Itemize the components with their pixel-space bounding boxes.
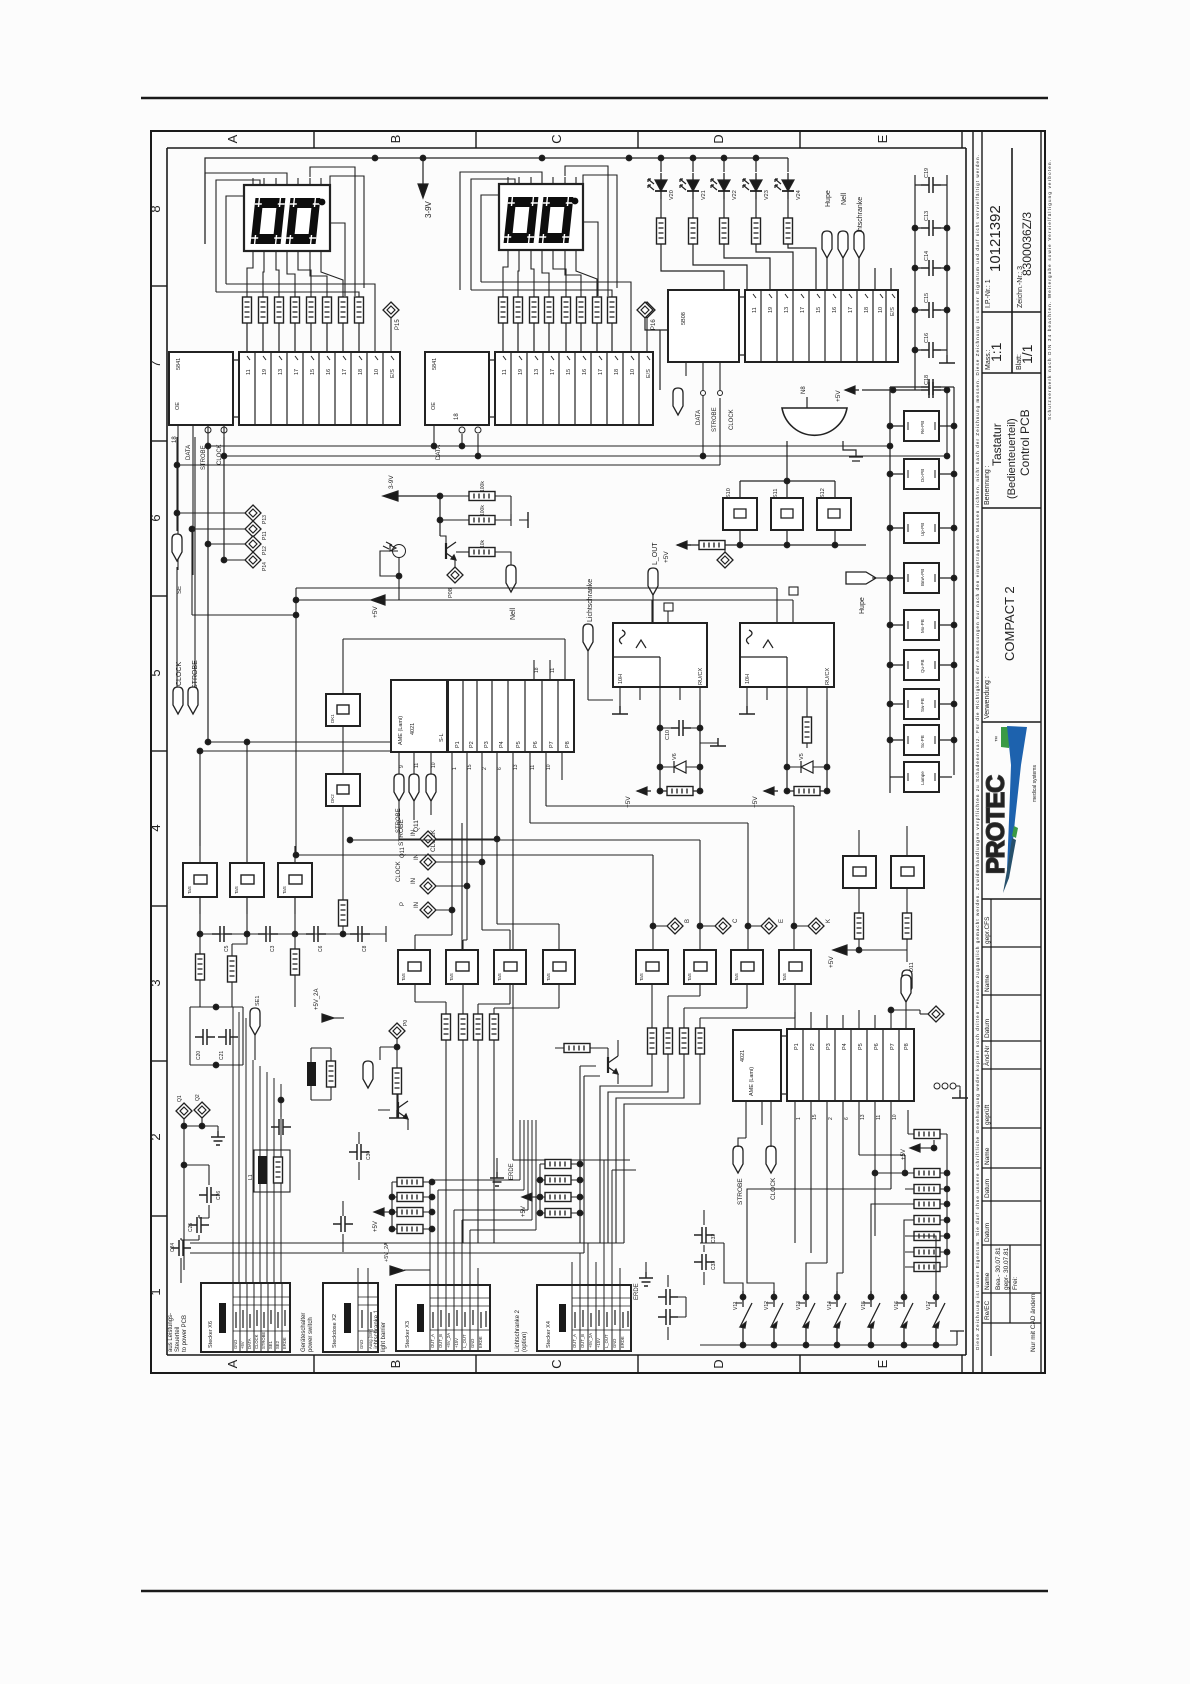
- svg-text:10: 10: [630, 369, 636, 375]
- svg-text:11: 11: [414, 763, 420, 768]
- svg-text:S12: S12: [820, 488, 826, 498]
- svg-text:15: 15: [310, 369, 316, 375]
- svg-text:17: 17: [294, 369, 300, 375]
- svg-text:IN: IN: [414, 902, 420, 908]
- svg-text:C6: C6: [318, 945, 324, 952]
- svg-text:4021: 4021: [410, 723, 416, 735]
- svg-text:OE: OE: [431, 402, 437, 410]
- svg-text:Schutzvermerk nach DIN 34 beac: Schutzvermerk nach DIN 34 beachten. Weit…: [1047, 160, 1052, 420]
- svg-text:P2: P2: [810, 1043, 816, 1050]
- svg-text:16: 16: [832, 307, 838, 313]
- svg-text:P7: P7: [549, 741, 555, 748]
- svg-text:Frei:: Frei:: [1012, 1277, 1019, 1290]
- svg-text:Datum: Datum: [984, 1019, 991, 1038]
- svg-text:V13: V13: [796, 1301, 802, 1310]
- svg-text:STROBE: STROBE: [396, 808, 402, 833]
- svg-text:TaS: TaS: [401, 973, 406, 981]
- svg-text:P16: P16: [651, 319, 657, 330]
- svg-text:C: C: [733, 918, 739, 923]
- svg-text:V24: V24: [796, 190, 802, 200]
- svg-text:C5: C5: [224, 945, 230, 952]
- svg-text:6: 6: [844, 1117, 850, 1120]
- svg-text:17: 17: [550, 369, 556, 375]
- svg-text:GND: GND: [470, 1339, 475, 1348]
- svg-text:P0: P0: [403, 1020, 409, 1026]
- svg-text:K: K: [826, 919, 832, 923]
- svg-text:2: 2: [148, 1133, 163, 1140]
- svg-text:P: P: [400, 902, 406, 906]
- svg-text:Name: Name: [984, 1272, 991, 1290]
- svg-text:(Bedienteuerteil): (Bedienteuerteil): [1006, 418, 1018, 499]
- svg-text:3-9V: 3-9V: [424, 200, 433, 218]
- svg-text:Nell: Nell: [841, 192, 848, 205]
- svg-text:™: ™: [994, 736, 1001, 742]
- svg-text:SE: SE: [177, 586, 183, 594]
- svg-text:V16: V16: [894, 1301, 900, 1310]
- svg-text:TaS: TaS: [234, 886, 239, 894]
- svg-text:GND: GND: [612, 1339, 617, 1348]
- svg-text:Sc-PB: Sc-PB: [920, 735, 925, 748]
- svg-text:S-L: S-L: [439, 733, 445, 742]
- svg-text:S11: S11: [773, 489, 779, 498]
- svg-text:13: 13: [534, 369, 540, 375]
- svg-text:P3: P3: [826, 1043, 832, 1050]
- svg-text:5: 5: [148, 669, 163, 676]
- svg-text:15: 15: [816, 307, 822, 313]
- svg-text:aus Leistungs-: aus Leistungs-: [168, 1313, 174, 1352]
- svg-text:P2: P2: [469, 741, 475, 748]
- svg-text:15: 15: [812, 1114, 818, 1120]
- svg-text:AME (Lami): AME (Lami): [749, 1067, 755, 1096]
- svg-text:15: 15: [467, 764, 473, 770]
- svg-text:TaS: TaS: [782, 973, 787, 981]
- svg-text:18: 18: [534, 667, 540, 673]
- svg-text:C33: C33: [711, 1261, 717, 1270]
- svg-text:C15: C15: [924, 293, 930, 303]
- svg-text:10H: 10H: [745, 674, 751, 684]
- svg-text:I.P.-Nr.: 1: I.P.-Nr.: 1: [985, 279, 992, 308]
- svg-text:19: 19: [262, 369, 268, 375]
- svg-text:P1: P1: [455, 741, 461, 748]
- svg-text:18: 18: [358, 369, 364, 375]
- svg-text:P7: P7: [890, 1043, 896, 1050]
- svg-text:L_OUT: L_OUT: [652, 542, 659, 565]
- svg-text:Name: Name: [984, 974, 991, 992]
- svg-text:power switch: power switch: [308, 1317, 314, 1352]
- svg-text:C32: C32: [711, 1234, 717, 1243]
- svg-text:1: 1: [452, 767, 458, 770]
- svg-text:(option): (option): [522, 1332, 528, 1352]
- svg-text:SE1: SE1: [268, 1340, 273, 1349]
- svg-text:A: A: [225, 134, 240, 143]
- svg-text:16: 16: [326, 369, 332, 375]
- svg-text:SE2: SE2: [275, 1340, 280, 1349]
- svg-text:Lampe: Lampe: [920, 771, 925, 785]
- svg-text:PROTEC: PROTEC: [982, 775, 1010, 874]
- svg-text:+5V: +5V: [372, 606, 379, 618]
- svg-text:L_OUT: L_OUT: [604, 1334, 609, 1348]
- svg-text:+5V_2A: +5V_2A: [384, 1242, 390, 1262]
- svg-text:P6: P6: [874, 1043, 880, 1050]
- svg-text:4021: 4021: [740, 1050, 746, 1062]
- svg-text:C14: C14: [924, 251, 930, 261]
- svg-text:17: 17: [800, 307, 806, 313]
- svg-text:E: E: [875, 134, 890, 143]
- svg-text:Ausg.(SW): Ausg.(SW): [368, 1328, 373, 1349]
- svg-text:N8: N8: [801, 386, 807, 394]
- svg-text:18: 18: [454, 413, 460, 420]
- svg-text:100k: 100k: [480, 505, 486, 516]
- svg-text:geprüft: geprüft: [984, 1105, 991, 1125]
- svg-text:B: B: [388, 1360, 403, 1369]
- svg-text:10: 10: [374, 369, 380, 375]
- svg-text:8300036Z/3: 8300036Z/3: [1020, 212, 1034, 276]
- svg-text:TaS: TaS: [546, 973, 551, 981]
- svg-text:L1: L1: [248, 1174, 254, 1180]
- svg-text:+5V_2A: +5V_2A: [446, 1333, 451, 1348]
- svg-text:V12: V12: [764, 1301, 770, 1310]
- svg-text:10: 10: [892, 1114, 898, 1120]
- svg-text:P8: P8: [565, 741, 571, 748]
- svg-text:Hupe: Hupe: [859, 597, 866, 614]
- svg-text:13: 13: [860, 1114, 866, 1120]
- svg-text:V23: V23: [764, 190, 770, 200]
- svg-text:9: 9: [399, 765, 405, 768]
- svg-text:B: B: [388, 135, 403, 144]
- svg-text:1:1: 1:1: [988, 342, 1004, 362]
- svg-text:2: 2: [828, 1117, 834, 1120]
- svg-text:C3: C3: [270, 945, 276, 952]
- svg-text:13: 13: [278, 369, 284, 375]
- svg-text:100k: 100k: [480, 481, 486, 492]
- svg-text:18: 18: [614, 369, 620, 375]
- svg-text:STROBE: STROBE: [261, 1332, 266, 1349]
- svg-text:TaS: TaS: [187, 886, 192, 894]
- svg-text:DATA: DATA: [247, 1338, 252, 1349]
- svg-text:Sw-PB: Sw-PB: [920, 698, 925, 712]
- svg-text:CLOCK: CLOCK: [396, 861, 402, 882]
- svg-text:ERDE: ERDE: [634, 1283, 640, 1300]
- svg-text:P14: P14: [262, 562, 268, 571]
- svg-text:3-9V: 3-9V: [388, 475, 395, 489]
- svg-text:V20: V20: [669, 190, 675, 200]
- svg-text:10: 10: [546, 764, 552, 770]
- svg-text:Lichtschranke 1: Lichtschranke 1: [374, 1309, 380, 1352]
- svg-text:OUT_A: OUT_A: [430, 1334, 435, 1348]
- svg-text:E/S: E/S: [646, 369, 652, 378]
- svg-text:Mo-PB: Mo-PB: [920, 619, 925, 633]
- svg-text:13: 13: [784, 307, 790, 313]
- svg-text:17: 17: [848, 307, 854, 313]
- svg-text:Geräteschalter: Geräteschalter: [301, 1313, 307, 1352]
- svg-text:IN: IN: [411, 878, 417, 884]
- svg-text:E/S: E/S: [890, 307, 896, 316]
- svg-text:+15V: +15V: [596, 1338, 601, 1348]
- svg-text:13: 13: [513, 764, 519, 770]
- svg-text:11: 11: [530, 765, 536, 770]
- svg-text:C8: C8: [362, 945, 368, 952]
- svg-text:Änd-Nr: Änd-Nr: [983, 1045, 991, 1066]
- svg-text:ERDE: ERDE: [282, 1337, 287, 1349]
- svg-text:OUT_B: OUT_B: [438, 1334, 443, 1348]
- svg-text:RU/CX: RU/CX: [825, 668, 831, 685]
- svg-text:10121392: 10121392: [987, 205, 1004, 272]
- svg-text:RU/CX: RU/CX: [698, 668, 704, 685]
- svg-text:AME (Lami): AME (Lami): [398, 716, 404, 745]
- svg-text:E: E: [779, 919, 785, 923]
- svg-text:P6: P6: [533, 741, 539, 748]
- svg-text:V11: V11: [733, 1301, 739, 1310]
- svg-text:11: 11: [752, 307, 758, 313]
- svg-text:V21: V21: [701, 190, 707, 200]
- svg-text:P8: P8: [904, 1043, 910, 1050]
- svg-text:P13: P13: [262, 515, 268, 524]
- svg-text:ERDE: ERDE: [620, 1336, 625, 1348]
- svg-text:Diese Zeichnung ist unser Eige: Diese Zeichnung ist unser Eigentum. Sie …: [975, 155, 980, 1350]
- svg-text:11: 11: [246, 369, 252, 375]
- svg-text:V17: V17: [926, 1301, 932, 1310]
- svg-text:5B08: 5B08: [681, 312, 687, 325]
- svg-text:Qu-PB: Qu-PB: [920, 659, 925, 673]
- svg-text:C13: C13: [924, 211, 930, 221]
- svg-text:1: 1: [796, 1117, 802, 1120]
- svg-text:light barrier: light barrier: [381, 1322, 387, 1352]
- svg-text:CLOCK: CLOCK: [176, 662, 183, 686]
- svg-text:+5V: +5V: [663, 551, 670, 563]
- svg-text:STROBE: STROBE: [192, 660, 199, 689]
- svg-text:11: 11: [550, 668, 556, 673]
- svg-text:Datum: Datum: [984, 1223, 991, 1242]
- svg-text:5841: 5841: [432, 358, 438, 370]
- svg-text:+5V: +5V: [240, 1341, 245, 1349]
- svg-text:E: E: [875, 1359, 890, 1368]
- svg-text:C21: C21: [219, 1051, 225, 1060]
- svg-text:C20: C20: [196, 1051, 202, 1060]
- svg-text:STROBE: STROBE: [737, 1178, 744, 1205]
- svg-text:P11: P11: [262, 531, 268, 540]
- svg-text:Up-PB: Up-PB: [920, 523, 925, 536]
- svg-text:17: 17: [342, 369, 348, 375]
- svg-text:OUT_B: OUT_B: [580, 1334, 585, 1348]
- svg-text:10: 10: [878, 307, 884, 313]
- svg-text:18: 18: [864, 307, 870, 313]
- svg-text:Name: Name: [984, 1147, 991, 1165]
- svg-text:OUT_A: OUT_A: [572, 1334, 577, 1348]
- svg-text:+5V: +5V: [828, 956, 835, 968]
- svg-text:Stecker X6: Stecker X6: [208, 1321, 214, 1348]
- svg-text:TaS: TaS: [734, 973, 739, 981]
- svg-text:Hupe: Hupe: [825, 190, 832, 207]
- svg-text:S10: S10: [726, 488, 732, 498]
- svg-text:V14: V14: [827, 1301, 833, 1310]
- svg-text:Steuerteil: Steuerteil: [175, 1327, 181, 1352]
- svg-text:2: 2: [482, 767, 488, 770]
- svg-text:Q2: Q2: [195, 1094, 201, 1101]
- svg-text:10: 10: [431, 762, 437, 768]
- svg-text:Nur mit CAD ändern: Nur mit CAD ändern: [1030, 1293, 1037, 1352]
- svg-text:1/1: 1/1: [1019, 344, 1035, 364]
- svg-text:3: 3: [148, 979, 163, 986]
- svg-text:gepr- 30.07.81: gepr- 30.07.81: [1003, 1247, 1010, 1290]
- svg-text:DK2: DK2: [330, 794, 335, 803]
- svg-text:CLOCK: CLOCK: [254, 1334, 259, 1349]
- svg-text:Stecker X3: Stecker X3: [405, 1321, 411, 1348]
- svg-text:V5: V5: [799, 753, 805, 760]
- svg-text:L_OUT: L_OUT: [462, 1334, 467, 1348]
- svg-text:Verwendung :: Verwendung :: [984, 676, 991, 719]
- svg-text:Steckdose X2: Steckdose X2: [332, 1314, 338, 1348]
- svg-text:Do-PB: Do-PB: [920, 469, 925, 482]
- svg-text:+5V: +5V: [835, 390, 842, 402]
- svg-text:6: 6: [497, 767, 503, 770]
- svg-text:+5V_2A: +5V_2A: [588, 1333, 593, 1348]
- svg-text:E/S: E/S: [390, 369, 396, 378]
- svg-text:DK1: DK1: [330, 714, 335, 723]
- svg-text:8: 8: [148, 205, 163, 212]
- svg-text:+5V: +5V: [373, 1221, 379, 1232]
- svg-text:V22: V22: [732, 190, 738, 200]
- svg-text:V15: V15: [861, 1301, 867, 1310]
- svg-text:Control PCB: Control PCB: [1018, 409, 1032, 476]
- svg-text:ERDE: ERDE: [509, 1163, 515, 1180]
- svg-text:+5V: +5V: [521, 1206, 527, 1217]
- svg-text:C24: C24: [170, 1243, 176, 1252]
- svg-text:19: 19: [518, 369, 524, 375]
- svg-text:gepr.CFS: gepr.CFS: [984, 916, 991, 944]
- svg-text:4: 4: [148, 824, 163, 831]
- svg-text:5841: 5841: [176, 358, 182, 370]
- svg-text:COMPACT 2: COMPACT 2: [1002, 586, 1017, 661]
- svg-text:STROBE: STROBE: [712, 407, 718, 432]
- svg-text:C25: C25: [188, 1223, 194, 1232]
- svg-text:Stecker X4: Stecker X4: [546, 1321, 552, 1348]
- svg-text:P15: P15: [395, 319, 401, 330]
- svg-text:TaS: TaS: [497, 973, 502, 981]
- svg-text:P3: P3: [484, 741, 490, 748]
- svg-text:OE: OE: [175, 402, 181, 410]
- svg-text:P4: P4: [499, 741, 505, 748]
- svg-text:B: B: [685, 919, 691, 923]
- svg-text:+5V_2A: +5V_2A: [314, 988, 320, 1010]
- svg-text:15: 15: [566, 369, 572, 375]
- svg-text:DATA: DATA: [696, 410, 702, 425]
- svg-text:TaS: TaS: [282, 886, 287, 894]
- svg-text:C: C: [549, 134, 564, 143]
- svg-text:CLOCK: CLOCK: [729, 409, 735, 430]
- svg-text:1: 1: [148, 1288, 163, 1295]
- svg-text:C26: C26: [216, 1191, 222, 1200]
- svg-text:P1: P1: [794, 1043, 800, 1050]
- svg-text:Bea.- 30.07.81: Bea.- 30.07.81: [995, 1247, 1002, 1290]
- svg-text:DATA: DATA: [186, 445, 192, 460]
- svg-text:P12: P12: [262, 546, 268, 555]
- svg-text:10H: 10H: [618, 674, 624, 684]
- svg-text:Tastatur: Tastatur: [990, 423, 1004, 466]
- svg-text:Datum: Datum: [984, 1179, 991, 1198]
- svg-text:D: D: [711, 134, 726, 143]
- svg-text:10k: 10k: [480, 539, 486, 548]
- svg-text:C30: C30: [366, 1151, 372, 1160]
- svg-text:TaS: TaS: [449, 973, 454, 981]
- svg-text:Lichtschranke 2: Lichtschranke 2: [515, 1309, 521, 1352]
- svg-text:17: 17: [598, 369, 604, 375]
- svg-text:A: A: [225, 1359, 240, 1368]
- svg-text:C10: C10: [665, 730, 671, 740]
- svg-text:Re-PB: Re-PB: [920, 421, 925, 434]
- svg-text:P08: P08: [448, 588, 454, 598]
- svg-text:Nell: Nell: [510, 607, 517, 620]
- svg-text:6: 6: [148, 514, 163, 521]
- svg-text:D: D: [711, 1359, 726, 1368]
- svg-text:Q11: Q11: [400, 846, 406, 858]
- svg-text:medical systems: medical systems: [1032, 765, 1038, 802]
- svg-text:P5: P5: [858, 1043, 864, 1050]
- svg-text:C16: C16: [924, 333, 930, 343]
- svg-text:Re/EC: Re/EC: [984, 1301, 991, 1320]
- svg-text:V6: V6: [672, 753, 678, 760]
- svg-text:C19: C19: [924, 168, 930, 178]
- svg-text:GND: GND: [359, 1340, 364, 1349]
- svg-text:P4: P4: [842, 1043, 848, 1050]
- svg-text:TaS: TaS: [687, 973, 692, 981]
- svg-text:16: 16: [582, 369, 588, 375]
- svg-text:11: 11: [502, 369, 508, 375]
- svg-text:GND: GND: [233, 1340, 238, 1349]
- svg-text:to power PCB: to power PCB: [182, 1315, 188, 1352]
- svg-text:Q1: Q1: [177, 1095, 183, 1102]
- svg-text:19: 19: [768, 307, 774, 313]
- svg-text:SE1: SE1: [255, 996, 261, 1006]
- svg-text:IN: IN: [411, 830, 417, 836]
- svg-text:+15V: +15V: [454, 1338, 459, 1348]
- svg-text:BmA-PB: BmA-PB: [920, 569, 925, 586]
- svg-text:ERDE: ERDE: [478, 1336, 483, 1348]
- svg-text:P5: P5: [516, 741, 522, 748]
- svg-text:Benennung :: Benennung :: [984, 465, 991, 505]
- svg-text:STROBE: STROBE: [201, 445, 207, 470]
- svg-text:TaS: TaS: [639, 973, 644, 981]
- svg-text:C: C: [549, 1359, 564, 1368]
- svg-text:7: 7: [148, 360, 163, 367]
- svg-text:11: 11: [876, 1115, 882, 1120]
